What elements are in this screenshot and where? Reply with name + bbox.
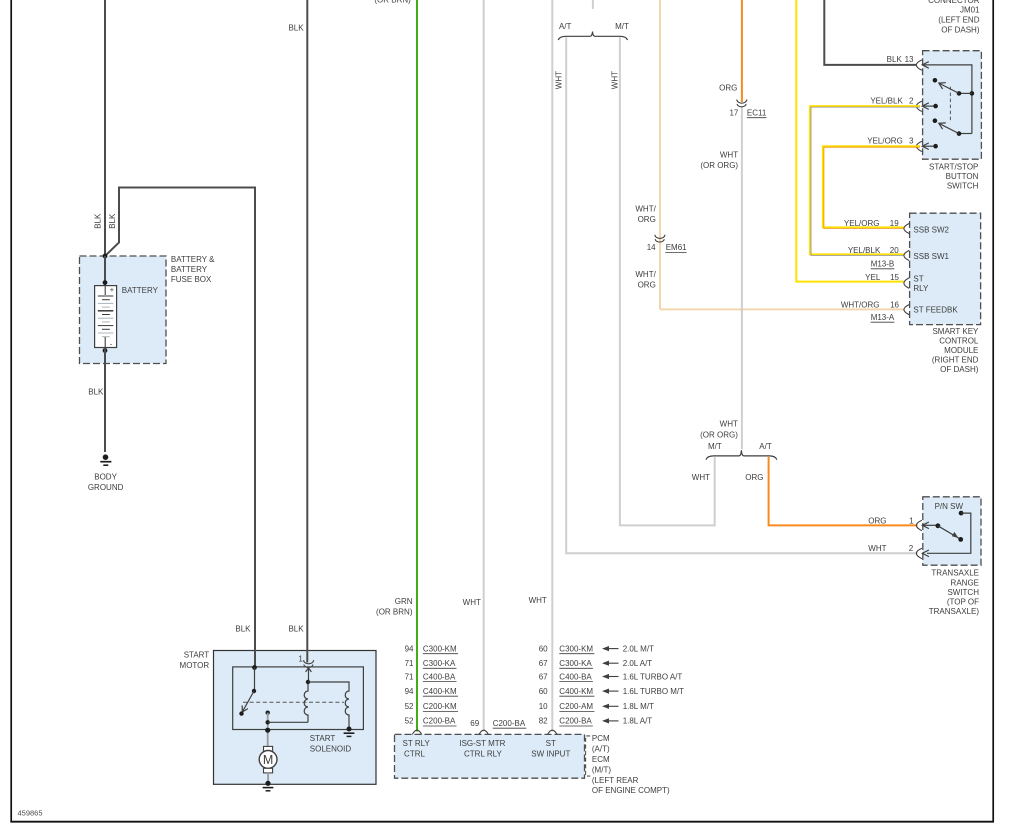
pin arc ST RLY CTRL — [412, 730, 421, 734]
svg-text:(A/T): (A/T) — [592, 745, 610, 754]
pin arc ISG-ST MTR CTRL RLY — [479, 730, 488, 734]
svg-text:16: 16 — [890, 300, 899, 309]
svg-text:(OR BRN): (OR BRN) — [374, 0, 411, 5]
svg-text:C300-KA: C300-KA — [423, 659, 456, 668]
svg-text:ORG: ORG — [868, 516, 886, 525]
pin 16 arc — [904, 305, 909, 315]
battery & battery fuse box (dashed) — [80, 256, 167, 364]
wire WHT/ORG vertical x=660 — [659, 0, 661, 309]
svg-text:+: + — [110, 285, 115, 294]
svg-text:C200-BA: C200-BA — [559, 717, 592, 726]
svg-text:15: 15 — [890, 273, 899, 282]
svg-text:A/T: A/T — [759, 442, 772, 451]
switch blade with arrowhead — [242, 691, 254, 712]
svg-text:SSB SW1: SSB SW1 — [913, 252, 949, 261]
wire BLK from JM01 to SSB pin 13 — [824, 0, 916, 65]
svg-text:YEL/ORG: YEL/ORG — [844, 219, 880, 228]
svg-text:SMART KEY: SMART KEY — [932, 327, 979, 336]
svg-text:20: 20 — [890, 246, 899, 255]
svg-text:ST RLY: ST RLY — [403, 739, 431, 748]
svg-text:ST FEEDBK: ST FEEDBK — [913, 305, 958, 314]
pin 19 arc — [904, 223, 909, 233]
stub above top brace — [592, 0, 594, 9]
wire into battery — [104, 256, 106, 286]
svg-text:ORG: ORG — [745, 473, 763, 482]
svg-text:1.8L A/T: 1.8L A/T — [623, 717, 653, 726]
svg-text:WHT/: WHT/ — [635, 270, 656, 279]
svg-text:TRANSAXLE: TRANSAXLE — [931, 569, 979, 578]
svg-text:M/T: M/T — [708, 442, 722, 451]
svg-text:BATTERY: BATTERY — [171, 265, 208, 274]
transaxle range switch box — [923, 497, 981, 565]
switch pole 1 — [959, 92, 972, 94]
svg-text:52: 52 — [405, 717, 414, 726]
svg-text:SOLENOID: SOLENOID — [310, 744, 352, 753]
svg-text:BLK: BLK — [88, 388, 104, 397]
svg-text:2: 2 — [909, 544, 914, 553]
svg-text:MODULE: MODULE — [944, 346, 978, 355]
wire BLK solenoid feed (vertical x=307.3) — [306, 0, 308, 663]
svg-text:3: 3 — [909, 137, 914, 146]
pin 2 arrow — [922, 550, 929, 557]
wire WHT M/T from top brace to bottom brace — [620, 37, 715, 525]
pin 1 arrow to contact — [922, 522, 929, 529]
svg-text:BLK: BLK — [887, 55, 903, 64]
pin 3 arc — [916, 141, 922, 151]
svg-text:(OR ORG): (OR ORG) — [700, 161, 738, 170]
motor ground — [265, 781, 270, 786]
svg-text:60: 60 — [539, 644, 548, 653]
svg-text:CTRL RLY: CTRL RLY — [464, 749, 502, 758]
svg-text:2: 2 — [909, 97, 914, 106]
node below battery — [103, 348, 108, 353]
svg-text:BLK: BLK — [108, 213, 117, 229]
svg-text:EC11: EC11 — [747, 108, 767, 117]
svg-text:YEL/ORG: YEL/ORG — [867, 137, 903, 146]
svg-text:10: 10 — [539, 702, 548, 711]
svg-text:M/T: M/T — [615, 22, 629, 31]
upper contact and link to pin 2 — [959, 511, 964, 516]
svg-text:69: 69 — [470, 719, 479, 728]
svg-text:ST: ST — [913, 275, 923, 284]
pin 2 arc — [916, 101, 922, 111]
svg-text:BLK: BLK — [93, 213, 102, 229]
svg-text:C200-AM: C200-AM — [559, 702, 593, 711]
svg-text:OF ENGINE COMPT): OF ENGINE COMPT) — [592, 786, 670, 795]
svg-text:67: 67 — [539, 659, 548, 668]
svg-text:(LEFT END: (LEFT END — [938, 16, 979, 25]
wire BLK from battery + to start motor (L path) — [105, 188, 255, 669]
solenoid ground — [347, 727, 352, 732]
svg-text:1: 1 — [298, 655, 303, 664]
svg-text:BLK: BLK — [288, 624, 304, 633]
svg-text:BLK: BLK — [288, 23, 304, 32]
svg-text:(LEFT REAR: (LEFT REAR — [592, 776, 639, 785]
node junction top of battery box — [103, 254, 108, 259]
svg-text:2.0L M/T: 2.0L M/T — [623, 644, 654, 653]
svg-text:M13-B: M13-B — [871, 260, 895, 269]
svg-text:START: START — [310, 734, 336, 743]
svg-text:YEL/BLK: YEL/BLK — [870, 97, 903, 106]
svg-text:EM61: EM61 — [666, 243, 687, 252]
PCM/ECM box (dashed) — [395, 734, 585, 778]
pin 3 arrow to contact — [922, 143, 929, 150]
svg-text:CTRL: CTRL — [404, 749, 425, 758]
svg-text:C400-KM: C400-KM — [423, 687, 457, 696]
svg-text:WHT: WHT — [868, 544, 886, 553]
svg-text:WHT: WHT — [463, 598, 481, 607]
pin 2 arc — [916, 548, 922, 558]
svg-text:START/STOP: START/STOP — [929, 162, 978, 171]
svg-text:ISG-ST MTR: ISG-ST MTR — [459, 739, 505, 748]
svg-text:GROUND: GROUND — [88, 483, 124, 492]
svg-text:OF DASH): OF DASH) — [940, 365, 979, 374]
svg-text:CONNECTOR: CONNECTOR — [928, 0, 980, 5]
battery symbol — [95, 285, 117, 349]
svg-text:82: 82 — [539, 717, 548, 726]
svg-text:YEL/BLK: YEL/BLK — [848, 246, 881, 255]
svg-text:START: START — [184, 651, 210, 660]
svg-text:WHT: WHT — [529, 596, 547, 605]
switch pole 2 — [959, 133, 972, 135]
svg-text:WHT: WHT — [720, 420, 738, 429]
svg-text:RLY: RLY — [913, 284, 929, 293]
wire YEL from top to smart key pin 15 — [796, 0, 904, 282]
svg-text:ST: ST — [546, 739, 556, 748]
rail node — [970, 91, 975, 96]
svg-text:(OR BRN): (OR BRN) — [376, 607, 413, 616]
svg-text:PCM: PCM — [592, 734, 610, 743]
svg-text:(M/T): (M/T) — [592, 765, 611, 774]
border frame left — [10, 0, 12, 823]
pin 15 arc — [904, 278, 909, 289]
svg-text:52: 52 — [405, 702, 414, 711]
svg-text:BODY: BODY — [94, 472, 117, 481]
pin 13 arrow and rail — [922, 62, 929, 69]
svg-text:C200-BA: C200-BA — [493, 719, 526, 728]
engine variant arrows and labels — [602, 644, 684, 725]
svg-text:JM01: JM01 — [960, 6, 980, 15]
solenoid pull-in coil — [304, 682, 308, 722]
border frame bottom — [10, 821, 994, 823]
solenoid hold coil — [308, 682, 349, 729]
wire ORG vertical x=741.9 — [741, 0, 743, 102]
brace M/T A/T bottom — [706, 450, 777, 459]
wire GRN (OR BRN) vertical x=417 — [416, 0, 418, 732]
svg-text:C300-KM: C300-KM — [559, 644, 593, 653]
svg-text:(OR ORG): (OR ORG) — [700, 430, 738, 439]
svg-text:WHT/ORG: WHT/ORG — [841, 300, 880, 309]
connector EM61 — [655, 235, 665, 239]
svg-text:ECM: ECM — [592, 755, 610, 764]
svg-text:SSB SW2: SSB SW2 — [913, 226, 949, 235]
svg-text:WHT: WHT — [555, 71, 564, 89]
svg-text:BUTTON: BUTTON — [946, 172, 979, 181]
svg-text:SWITCH: SWITCH — [947, 181, 979, 190]
start motor box — [214, 651, 377, 785]
svg-text:C300-KA: C300-KA — [559, 659, 592, 668]
svg-text:WHT: WHT — [720, 151, 738, 160]
svg-text:C400-KM: C400-KM — [559, 687, 593, 696]
svg-text:71: 71 — [405, 659, 414, 668]
svg-text:19: 19 — [890, 219, 899, 228]
svg-text:C200-BA: C200-BA — [423, 717, 456, 726]
wire WHT A/T from top brace to range switch pin 2 — [566, 37, 917, 553]
border frame right — [992, 0, 994, 823]
svg-text:ORG: ORG — [719, 83, 737, 92]
PCM bracket — [586, 736, 591, 776]
svg-text:C400-BA: C400-BA — [423, 672, 456, 681]
svg-text:(RIGHT END: (RIGHT END — [932, 356, 979, 365]
svg-text:OF DASH): OF DASH) — [941, 26, 980, 35]
svg-text:A/T: A/T — [559, 22, 572, 31]
connector EC11 — [737, 100, 747, 104]
svg-text:94: 94 — [405, 687, 414, 696]
left connector table rows — [405, 644, 458, 726]
svg-text:M13-A: M13-A — [871, 313, 895, 322]
svg-text:1.6L TURBO M/T: 1.6L TURBO M/T — [623, 687, 684, 696]
svg-text:1: 1 — [909, 516, 914, 525]
connector 1 on solenoid feed — [298, 655, 313, 668]
svg-text:YEL: YEL — [865, 273, 881, 282]
wire YEL/ORG from pin 3 to smart key pin 19 — [823, 146, 920, 227]
smart key control module box — [910, 213, 981, 324]
arrow up into solenoid — [306, 668, 312, 672]
switch blade with arrowhead — [938, 526, 961, 540]
switch fixed contact to motor — [266, 711, 270, 715]
wire WHT vertical x=483.7 to ISG relay pin — [483, 0, 485, 732]
svg-text:SW INPUT: SW INPUT — [531, 749, 570, 758]
svg-text:BATTERY &: BATTERY & — [171, 255, 215, 264]
pin 1 arc — [916, 520, 922, 530]
svg-text:WHT/: WHT/ — [635, 204, 656, 213]
wire WHT vertical x=552.3 to ST SW INPUT — [551, 0, 553, 732]
svg-text:67: 67 — [539, 672, 548, 681]
svg-text:2.0L A/T: 2.0L A/T — [623, 659, 653, 668]
svg-text:ORG: ORG — [638, 215, 656, 224]
svg-text:WHT: WHT — [610, 71, 619, 89]
svg-text:ORG: ORG — [638, 281, 656, 290]
pin 13 arc — [916, 60, 922, 70]
svg-text:MOTOR: MOTOR — [180, 661, 210, 670]
svg-text:60: 60 — [539, 687, 548, 696]
mechanical link dashed — [949, 87, 951, 121]
svg-text:459865: 459865 — [18, 809, 43, 818]
svg-text:TRANSAXLE): TRANSAXLE) — [929, 607, 980, 616]
start/stop button switch box — [923, 51, 982, 160]
svg-text:C400-BA: C400-BA — [559, 672, 592, 681]
svg-text:SWITCH: SWITCH — [947, 588, 979, 597]
pin arc ST SW INPUT — [548, 730, 557, 734]
svg-text:M: M — [263, 753, 273, 767]
wire battery negative down — [104, 348, 106, 452]
svg-text:BATTERY: BATTERY — [122, 286, 159, 295]
motor M — [259, 746, 277, 783]
node above battery — [103, 280, 108, 285]
pin 20 arc — [904, 250, 909, 260]
svg-text:1.6L TURBO A/T: 1.6L TURBO A/T — [623, 672, 683, 681]
svg-text:FUSE BOX: FUSE BOX — [171, 275, 212, 284]
svg-text:BLK: BLK — [235, 624, 251, 633]
svg-text:C200-KM: C200-KM — [423, 702, 457, 711]
svg-text:1.8L M/T: 1.8L M/T — [623, 702, 654, 711]
body ground symbol — [100, 454, 111, 465]
solenoid switch contact (from battery wire) — [252, 665, 257, 670]
wire ORG A/T to range switch pin 1 — [769, 457, 918, 525]
start motor inner box — [233, 667, 364, 730]
mechanical link dashed — [243, 701, 344, 703]
wire YEL/BLK from pin 2 to smart key pin 20 — [810, 106, 920, 254]
pin 2 arrow to contact — [922, 103, 929, 110]
brace A/T M/T top — [558, 32, 628, 40]
svg-text:P/N SW: P/N SW — [935, 502, 964, 511]
svg-text:CONTROL: CONTROL — [939, 336, 979, 345]
svg-text:C300-KM: C300-KM — [423, 644, 457, 653]
wire WHT (OR ORG) below EC11 — [741, 108, 743, 450]
svg-text:94: 94 — [405, 644, 414, 653]
wire WHT/ORG to smart key pin 16 — [660, 308, 904, 310]
svg-text:WHT: WHT — [692, 473, 710, 482]
svg-text:GRN: GRN — [395, 597, 413, 606]
svg-text:17: 17 — [729, 108, 738, 117]
svg-text:14: 14 — [647, 243, 656, 252]
wire BLK battery positive feed (vertical x=105) — [104, 0, 106, 256]
svg-text:(TOP OF: (TOP OF — [947, 598, 979, 607]
right connector table rows with engine variants — [539, 644, 595, 726]
svg-text:71: 71 — [405, 672, 414, 681]
svg-text:13: 13 — [905, 55, 914, 64]
svg-text:RANGE: RANGE — [951, 578, 979, 587]
